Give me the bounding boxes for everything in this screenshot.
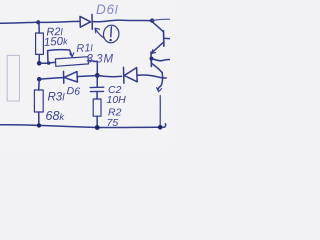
- node H junction bus left: [37, 123, 41, 127]
- svg-text:D6l: D6l: [96, 2, 118, 17]
- svg-text:3.3M: 3.3M: [87, 54, 114, 66]
- transistor Q2 emitter diagonal: [152, 64, 162, 73]
- transistor Q1 emitter with arrow: [152, 43, 164, 54]
- resistor R21 lead bottom: [38, 55, 40, 63]
- diode D6: [64, 71, 78, 83]
- resistor R31: [34, 90, 43, 112]
- resistor R21: [36, 33, 44, 54]
- diode D7: [124, 67, 138, 83]
- capacitor C2: [90, 87, 104, 91]
- resistor R21 lead top: [38, 23, 40, 33]
- resistor R31 lead top: [38, 79, 41, 90]
- wire bottom bus: [0, 124, 166, 128]
- wire top rail right stub: [152, 19, 170, 20]
- resistor R2 lead bottom: [96, 116, 98, 126]
- node I junction bus mid: [95, 125, 100, 130]
- transistor Q1 base bar: [163, 31, 165, 46]
- transistor Q2 base bar: [150, 52, 152, 66]
- wire top rail from D61 to right junction: [93, 20, 151, 22]
- wire D7 to Q2 emitter line: [138, 75, 167, 78]
- node F junction mid: [95, 73, 100, 78]
- node E small junction: [47, 61, 50, 64]
- transistor Q1 base lead: [164, 37, 170, 40]
- node C junction Q2: [150, 57, 154, 61]
- svg-text:R3l: R3l: [48, 92, 66, 104]
- svg-text:D6: D6: [66, 85, 80, 98]
- transistor Q1 collector: [153, 22, 164, 31]
- resistor R31 lead bottom: [38, 112, 40, 125]
- wire node F to D7: [97, 75, 121, 76]
- meter M1 pointer arrow: [95, 28, 104, 38]
- node A junction top-left: [36, 20, 40, 24]
- node J junction bus right: [158, 125, 163, 130]
- block U1 faint rectangle: [7, 55, 19, 101]
- wiper arrow into R11: [70, 50, 74, 57]
- wire D6 to node F: [78, 76, 95, 77]
- svg-text:68k: 68k: [46, 109, 66, 123]
- resistor R2: [93, 99, 101, 116]
- node D junction below R21: [37, 61, 42, 66]
- capacitor C2 lead bottom: [96, 92, 98, 99]
- transistor Q2 emitter down with arrow hook: [157, 73, 163, 92]
- paper background: [0, 0, 170, 150]
- wire Q2 to right edge: [152, 59, 170, 61]
- wire R11 right lead: [89, 60, 98, 74]
- node B junction top-right: [150, 18, 154, 22]
- wire node D to pot left: [39, 62, 55, 63]
- node G junction left mid: [37, 77, 41, 81]
- wire top rail left: [0, 22, 37, 23]
- meter M1 circle: [102, 24, 119, 43]
- wire top rail to D61: [38, 21, 79, 22]
- svg-text:75: 75: [107, 117, 119, 129]
- wire wiper riser: [48, 50, 70, 63]
- wire emitter to bottom bus: [159, 96, 161, 127]
- svg-text:10H: 10H: [107, 94, 127, 106]
- diode D61: [80, 14, 92, 29]
- potentiometer R11: [55, 57, 88, 67]
- capacitor C2 lead top: [96, 75, 98, 86]
- wire node G to D6: [39, 78, 62, 80]
